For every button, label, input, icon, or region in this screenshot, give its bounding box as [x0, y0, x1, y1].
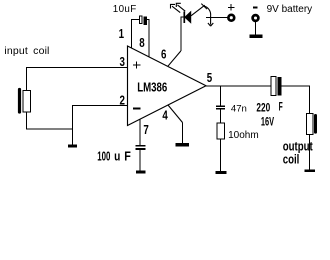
- capacitor C3 220uF: [271, 77, 282, 96]
- pin 4 label: [162, 109, 168, 123]
- output coil L2: [306, 113, 317, 134]
- svg-text:10ohm: 10ohm: [228, 130, 259, 141]
- wire capacitor to output coil: [282, 86, 310, 114]
- wire input coil top to pin 3: [27, 68, 128, 91]
- label LM386: [137, 81, 167, 95]
- pin 2 label: [120, 94, 125, 108]
- ground (output coil): [305, 169, 315, 172]
- wire pin 5 output: [206, 85, 271, 87]
- battery + terminal: [228, 15, 234, 21]
- svg-text:47n: 47n: [231, 103, 247, 114]
- label 100 uF: [97, 150, 110, 164]
- svg-text:4: 4: [162, 109, 168, 123]
- svg-text:8: 8: [139, 37, 145, 51]
- LED D1: [184, 12, 191, 24]
- ground (input side): [68, 145, 77, 148]
- switch S1 lever: [191, 5, 205, 16]
- svg-text:9V battery: 9V battery: [267, 4, 313, 15]
- wire output coil to ground: [309, 134, 311, 169]
- wire capacitor to pin 8: [147, 20, 149, 58]
- switch actuator with arrow: [208, 15, 213, 26]
- capacitor C2 47n: [216, 106, 225, 109]
- svg-text:10uF: 10uF: [113, 4, 137, 15]
- capacitor C1 10uF (pins 1-8): [140, 16, 148, 25]
- svg-text:F: F: [279, 101, 283, 115]
- svg-text:6: 6: [161, 48, 166, 62]
- svg-text:coil: coil: [283, 153, 300, 167]
- pin 5 label: [207, 72, 213, 86]
- LED light arrows: [171, 3, 186, 12]
- wire pin 1 up and over: [132, 20, 140, 49]
- wire C2 to R1: [220, 110, 222, 123]
- label 16V: [261, 116, 275, 129]
- wire pin 7 down: [139, 119, 141, 145]
- switch travel arc: [204, 6, 211, 15]
- ground (battery): [249, 35, 262, 38]
- wire - terminal to ground: [255, 22, 257, 35]
- pin 3 label: [120, 56, 125, 70]
- wire C4 to ground: [139, 150, 141, 171]
- op-amp + input mark: [133, 61, 140, 68]
- wire pin 4 to ground: [168, 105, 183, 123]
- wire switch to + terminal: [206, 17, 228, 19]
- svg-text:220: 220: [256, 101, 270, 115]
- op-amp - input mark: [133, 107, 140, 109]
- capacitor C4 100uF: [135, 146, 145, 149]
- wire input coil bottom to ground node: [27, 112, 73, 129]
- ground (R1): [215, 171, 226, 174]
- label F: [279, 101, 283, 115]
- svg-text:7: 7: [143, 124, 148, 138]
- svg-text:u: u: [114, 151, 120, 164]
- op-amp U1 LM386 triangle: [128, 46, 207, 126]
- + mark: [228, 4, 235, 11]
- svg-text:5: 5: [207, 72, 213, 86]
- label coil: [283, 153, 300, 167]
- pin 1 label: [119, 28, 125, 42]
- wire R1 to ground: [220, 139, 222, 171]
- switch tip tick: [201, 4, 207, 10]
- wire pin 6 up to LED: [168, 51, 181, 66]
- battery - terminal: [253, 15, 259, 21]
- pin 6 label: [161, 48, 166, 62]
- svg-text:16V: 16V: [261, 116, 275, 129]
- input coil L1: [18, 88, 31, 114]
- svg-text:2: 2: [120, 94, 125, 108]
- ground (pin 4): [176, 143, 189, 146]
- wire pin 2 to ground node: [73, 106, 128, 145]
- pin 7 label: [143, 124, 148, 138]
- svg-text:output: output: [283, 140, 313, 154]
- svg-text:F: F: [124, 150, 131, 164]
- - mark: [253, 7, 257, 9]
- svg-text:1: 1: [119, 28, 125, 42]
- node junction pin5 branch: [220, 86, 222, 106]
- resistor R1 10ohm: [217, 123, 225, 139]
- svg-text:input coil: input coil: [4, 45, 49, 57]
- label 220: [256, 101, 270, 115]
- svg-text:3: 3: [120, 56, 125, 70]
- svg-text:LM386: LM386: [137, 81, 167, 95]
- ground (C4): [136, 171, 146, 174]
- pin 8 label: [139, 37, 145, 51]
- svg-text:100: 100: [97, 150, 110, 164]
- label output: [283, 140, 313, 154]
